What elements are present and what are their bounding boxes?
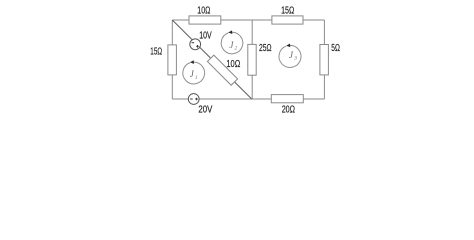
wire diagonal: [172, 20, 251, 99]
wire left vertical: [171, 20, 173, 99]
loop arrow J3: [279, 44, 301, 68]
resistor 15ohm left: [168, 45, 177, 75]
svg-text:1: 1: [195, 75, 198, 81]
svg-text:10Ω: 10Ω: [226, 59, 240, 70]
wire middle vertical: [251, 20, 253, 99]
svg-text:20V: 20V: [198, 104, 212, 115]
source 20V: [188, 94, 199, 105]
svg-text:5Ω: 5Ω: [331, 43, 340, 54]
resistor 25ohm middle: [248, 44, 256, 75]
resistor 10ohm top: [189, 16, 221, 24]
wire bottom: [172, 98, 324, 100]
svg-text:10V: 10V: [199, 30, 212, 41]
loop arrow J1: [183, 60, 205, 84]
wire right vertical: [323, 20, 325, 99]
svg-text:20Ω: 20Ω: [282, 105, 295, 116]
resistor 20ohm bottom: [271, 95, 303, 103]
svg-text:2: 2: [235, 46, 238, 52]
svg-text:15Ω: 15Ω: [150, 46, 162, 57]
loop arrow J2: [221, 30, 243, 53]
resistor 5ohm right: [320, 45, 329, 75]
svg-text:3: 3: [293, 56, 297, 62]
resistor 10ohm diagonal: [207, 55, 237, 85]
resistor 15ohm top-right: [272, 16, 303, 24]
svg-text:15Ω: 15Ω: [281, 5, 294, 16]
source 10V: [190, 39, 201, 50]
svg-text:25Ω: 25Ω: [259, 43, 272, 54]
svg-text:10Ω: 10Ω: [197, 5, 210, 16]
wire top: [172, 19, 324, 21]
